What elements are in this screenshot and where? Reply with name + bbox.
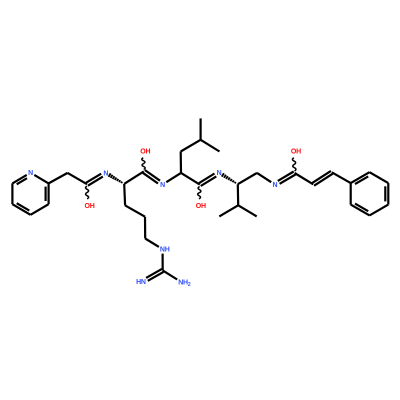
wire C3=N imine double bond <box>199 174 216 187</box>
wire Leu CH2-CH <box>181 140 201 152</box>
wire CH-phenyl bond <box>332 172 351 183</box>
wire N=C4 imine double bond <box>278 172 296 184</box>
wire NH-C guanidine bond <box>162 254 164 271</box>
wire pyridine C4=C5 double bond <box>12 203 30 215</box>
wire C1=N imine double bond <box>86 174 103 186</box>
wire hashed wedge N to CH (Val-like) <box>222 173 236 183</box>
wire alpha-C to C3(OH) bond <box>181 173 200 185</box>
wire CH2-N bond <box>257 173 271 182</box>
wire CH2-NH bond <box>145 239 159 247</box>
wire wavy bond C1-OH <box>86 186 89 199</box>
wire Leu CH-CH2 <box>180 152 183 173</box>
wire Leu CH-CH3 (right) <box>201 140 220 152</box>
wire CH2-C(OH) bond <box>68 173 87 184</box>
wire pyridine-CH2 bond <box>49 173 68 184</box>
wire benzene C6-C1 <box>350 183 352 205</box>
wire guanidine C=NH double bond <box>146 269 163 281</box>
wire Arg side chain CH2-CH2 <box>144 217 146 239</box>
wire benzene C2-C3 <box>370 172 389 183</box>
wire pyridine N1-C2 <box>34 175 48 184</box>
svg-text:OH: OH <box>85 203 95 210</box>
wire hashed wedge N to alpha-C (Arg) <box>109 173 123 183</box>
wire CH-CH isopropyl bond <box>237 184 240 205</box>
wire Arg side chain CH2-CH2 <box>125 205 145 216</box>
wire pyridine C6=N1 double bond <box>12 175 27 184</box>
wire benzene C5=C6 double bond <box>351 204 370 216</box>
wire wavy bond C2-OH <box>142 158 145 170</box>
wire isopropyl CH-CH3 (right) <box>238 205 257 216</box>
svg-text:N: N <box>160 182 165 189</box>
wire Leu CH-CH3 (up) <box>200 118 202 139</box>
wire C2=N imine double bond <box>143 170 160 184</box>
wire Arg side chain CH-CH2 <box>123 184 126 206</box>
svg-text:N: N <box>217 170 222 177</box>
svg-text:N: N <box>103 170 108 177</box>
svg-text:OH: OH <box>291 149 301 156</box>
wire wavy bond C4-OH <box>292 158 295 171</box>
wire benzene C1=C2 double bond <box>351 172 370 184</box>
wire guanidine C-NH2 bond <box>163 270 178 279</box>
wire pyridine C5-C6 <box>11 183 13 204</box>
svg-text:N: N <box>272 182 277 189</box>
wire CH-CH2 bond <box>238 173 257 184</box>
wire wavy bond C3-OH <box>198 187 201 199</box>
wire benzene C4-C5 <box>370 205 389 216</box>
wire isopropyl CH-CH3 (left) <box>219 205 238 216</box>
wire alpha-C to C2(OH) bond <box>124 171 144 184</box>
svg-text:OH: OH <box>140 149 150 156</box>
svg-text:HN: HN <box>136 279 146 286</box>
wire pyridine C3-C4 <box>31 204 49 215</box>
wire C4-CH alkene single bond <box>295 173 314 184</box>
svg-text:N: N <box>28 170 33 177</box>
wire pyridine C2=C3 double bond <box>46 183 49 204</box>
wire N to alpha-C (Leu) <box>166 173 181 182</box>
wire benzene C3=C4 double bond <box>385 183 388 205</box>
wire CH=CH trans double bond <box>312 171 332 186</box>
svg-text:OH: OH <box>196 203 206 210</box>
svg-text:NH: NH <box>160 247 170 254</box>
